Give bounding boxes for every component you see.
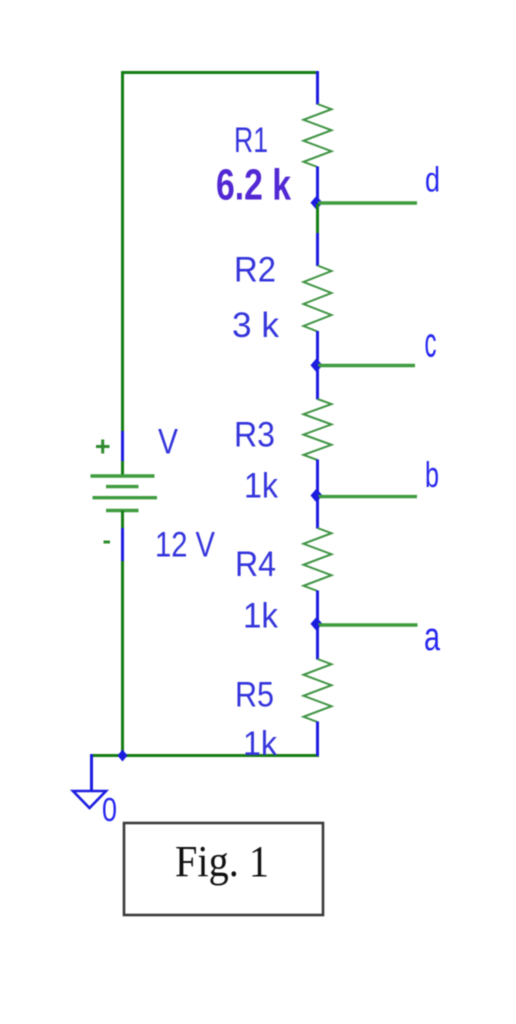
resistor R2: [304, 266, 332, 332]
svg-text:Fig. 1: Fig. 1: [175, 837, 269, 886]
svg-text:R5: R5: [235, 676, 274, 715]
battery V plate 2 (short): [106, 485, 139, 488]
ground stub wire: [90, 754, 93, 791]
wire right rail blue top: [316, 71, 319, 105]
wire blue R2 to node c: [316, 331, 319, 365]
resistor R1: [304, 104, 332, 167]
node 0 junction dot bottom-left: [118, 750, 128, 762]
svg-text:R3: R3: [234, 416, 275, 455]
wire blue node a to R5: [316, 625, 319, 660]
svg-text:b: b: [425, 454, 439, 495]
node a junction dot: [311, 617, 323, 631]
ground symbol triangle: [73, 791, 106, 808]
wire tap a (green): [318, 623, 418, 626]
svg-text:R2: R2: [234, 251, 276, 290]
wire green below node d: [316, 204, 319, 234]
wire blue above R2: [316, 233, 319, 266]
battery plus sign: [96, 440, 110, 454]
svg-text:R1: R1: [234, 121, 268, 160]
wire tap c (green): [318, 364, 415, 367]
svg-text:1k: 1k: [244, 467, 278, 506]
wire blue node c to R3: [316, 366, 319, 400]
wire left rail lower (green): [121, 561, 124, 756]
resistor R5: [304, 659, 332, 722]
svg-text:3 k: 3 k: [232, 306, 279, 345]
svg-text:1k: 1k: [243, 725, 278, 763]
wire left rail upper (green): [121, 73, 124, 433]
svg-text:a: a: [424, 615, 441, 659]
svg-text:1k: 1k: [243, 597, 278, 636]
svg-text:6.2 k: 6.2 k: [216, 161, 291, 210]
svg-text:0: 0: [102, 791, 117, 828]
wire left rail blue segment below battery: [121, 528, 124, 562]
wire blue R1 to node d: [316, 167, 319, 203]
battery V plate 1 (long): [91, 474, 155, 477]
wire left rail blue segment above battery: [121, 431, 124, 462]
svg-text:R4: R4: [235, 545, 276, 584]
wire tap b (green): [318, 495, 417, 498]
wire blue R5 to bottom: [316, 722, 319, 757]
svg-text:12 V: 12 V: [155, 526, 216, 565]
battery minus sign: [104, 541, 111, 544]
svg-text:V: V: [158, 423, 179, 462]
wire blue R4 to node a: [316, 591, 319, 624]
wire blue node b to R4: [316, 496, 319, 529]
battery V plate 3 (long): [93, 496, 158, 499]
wire blue R3 to node b: [316, 460, 319, 496]
resistor R4: [304, 528, 332, 591]
wire left rail short green into battery: [121, 461, 124, 476]
svg-text:d: d: [425, 161, 440, 200]
wire tap d (green): [318, 201, 417, 204]
svg-text:c: c: [425, 319, 437, 366]
battery V plate 4 (short): [106, 509, 139, 512]
node d junction dot: [311, 196, 323, 210]
node b junction dot: [311, 489, 323, 503]
Fig. 1 box: [124, 823, 323, 915]
wire bottom horizontal: [92, 754, 320, 757]
wire left rail green below battery: [121, 511, 124, 530]
wire top horizontal: [121, 71, 318, 74]
resistor R3: [304, 399, 332, 460]
node c junction dot: [311, 358, 323, 372]
